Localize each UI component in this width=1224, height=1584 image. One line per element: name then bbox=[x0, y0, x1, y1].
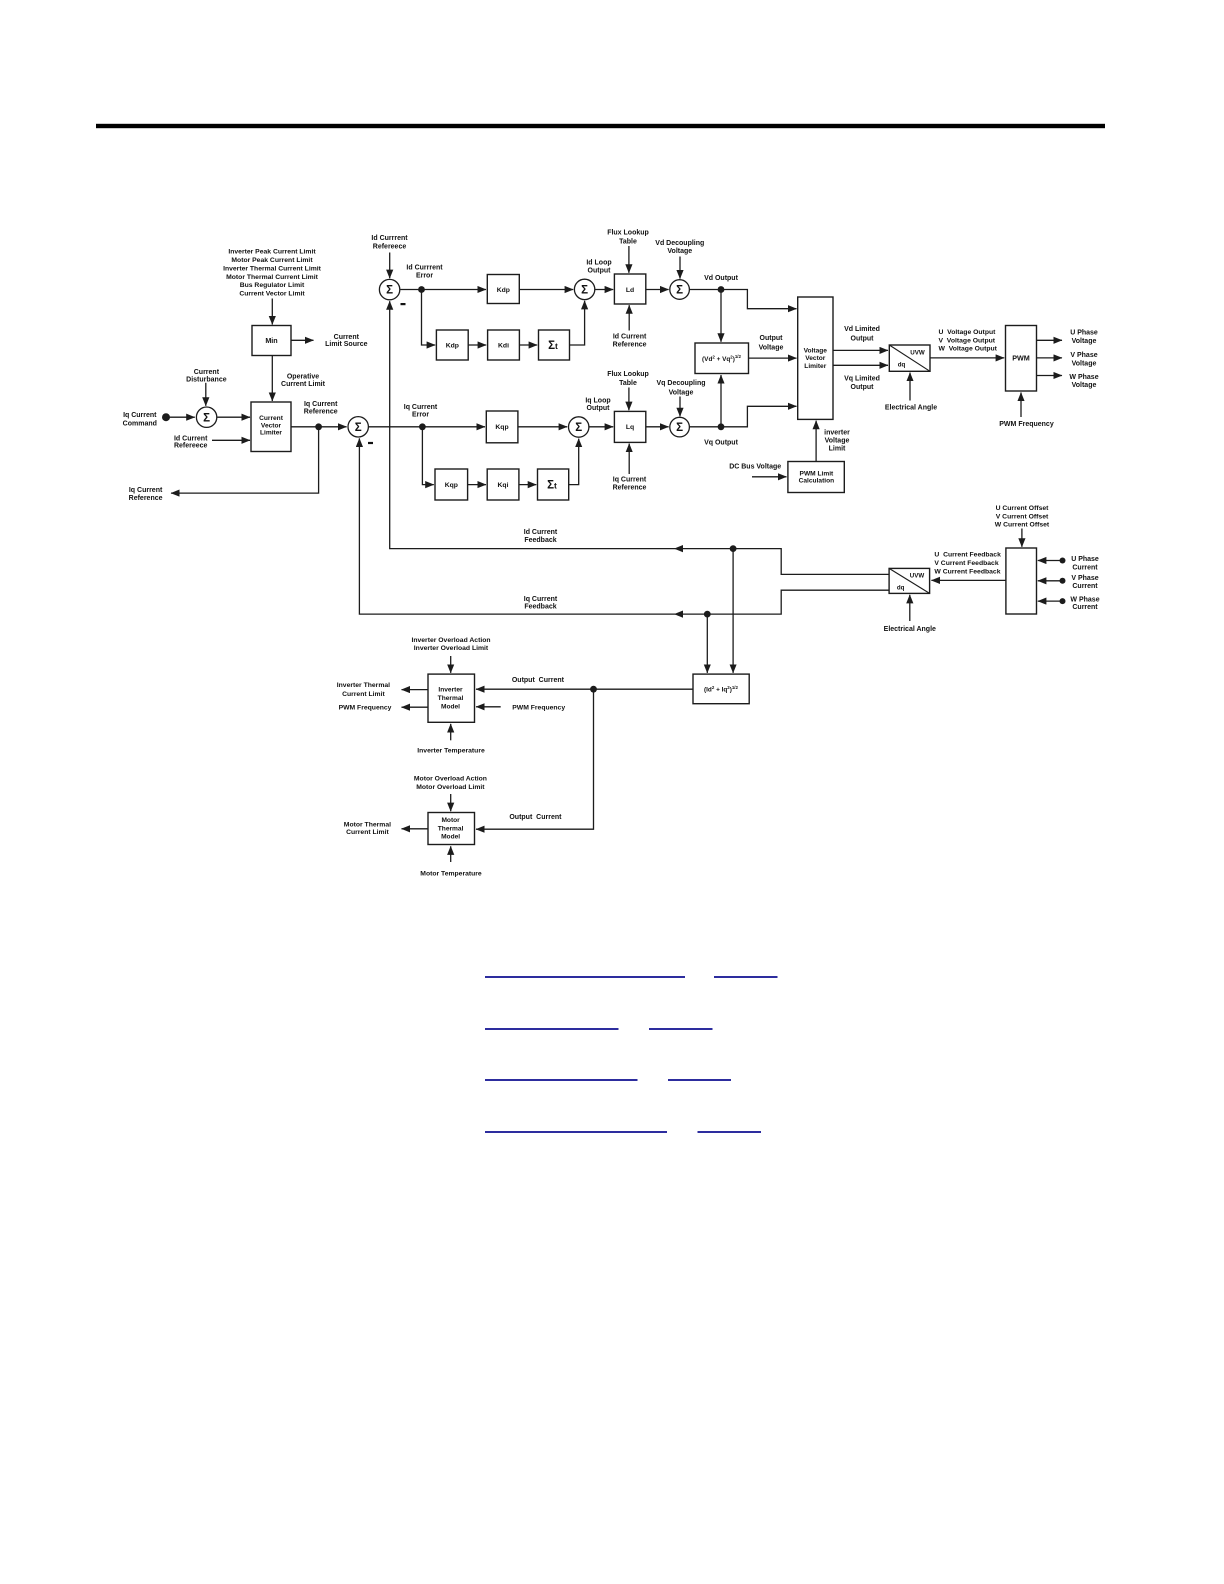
svg-text:U Phase: U Phase bbox=[1070, 329, 1098, 336]
svg-text:Feedback: Feedback bbox=[524, 604, 556, 611]
wire Iq feedback down to current magnitude block bbox=[706, 614, 708, 673]
svg-text:Reference: Reference bbox=[613, 484, 647, 491]
wire Sigma-t up to summer S3 bbox=[570, 301, 585, 345]
wire Vq junction up to magnitude block bbox=[720, 375, 722, 427]
svg-text:Σ: Σ bbox=[203, 412, 210, 424]
svg-text:Thermal: Thermal bbox=[438, 695, 464, 702]
wire Current Disturbance to summer S1 bbox=[205, 383, 207, 406]
block Current Vector Limiter bbox=[251, 402, 291, 452]
svg-text:Kdp: Kdp bbox=[497, 287, 510, 294]
svg-text:Iq Current: Iq Current bbox=[129, 487, 163, 494]
arrow Iq feedback direction bbox=[674, 611, 683, 618]
block UVW to dq feedback transform bbox=[889, 568, 930, 593]
svg-text:U Current Offset: U Current Offset bbox=[996, 505, 1050, 512]
node junction Id feedback bbox=[730, 545, 737, 552]
svg-text:Vq Output: Vq Output bbox=[704, 440, 738, 447]
wire Iq reference up into Lq bbox=[628, 444, 630, 474]
svg-text:Min: Min bbox=[265, 336, 277, 345]
svg-text:Voltage: Voltage bbox=[1072, 338, 1097, 345]
wire Vd decoupling down to S4 bbox=[679, 257, 681, 279]
node junction Vd output bbox=[718, 286, 725, 293]
svg-text:UVW: UVW bbox=[910, 573, 925, 580]
node junction Vq output bbox=[718, 423, 725, 430]
svg-text:Voltage: Voltage bbox=[667, 248, 692, 255]
svg-text:PWM Frequency: PWM Frequency bbox=[339, 705, 392, 712]
wire Id reference down to summer Sd bbox=[389, 253, 391, 279]
wire Id reference up into Ld bbox=[628, 305, 630, 330]
svg-text:Lq: Lq bbox=[626, 424, 634, 431]
block Kqp (integral path gain) bbox=[435, 469, 468, 500]
svg-text:Output: Output bbox=[851, 384, 875, 391]
svg-text:Vd Decoupling: Vd Decoupling bbox=[655, 240, 704, 247]
wire PWM frequency output (left) bbox=[402, 706, 429, 708]
svg-text:Reference: Reference bbox=[613, 342, 647, 349]
wire Kqp to Kqi bbox=[468, 484, 486, 486]
hyperlink underline bbox=[485, 976, 685, 978]
wire electrical angle up to transform bbox=[909, 373, 911, 401]
summer S3 (Id loop output) bbox=[574, 279, 594, 299]
block Sigma-t (Id integrator) bbox=[539, 330, 570, 360]
svg-text:PWM Limit: PWM Limit bbox=[800, 471, 835, 478]
wire Vq limited to dq-UVW transform bbox=[833, 364, 888, 366]
svg-text:Inverter Overload Action: Inverter Overload Action bbox=[411, 637, 490, 644]
wire Sigma-t up to summer S5 bbox=[569, 439, 579, 485]
svg-text:Error: Error bbox=[416, 273, 433, 280]
svg-text:Limiter: Limiter bbox=[804, 363, 826, 370]
block Kdp (proportional) bbox=[487, 275, 519, 304]
svg-text:Current: Current bbox=[1072, 583, 1098, 590]
wire Kqi to sum-t bbox=[519, 484, 536, 486]
wire Vd limited to dq-UVW transform bbox=[833, 349, 888, 351]
svg-text:Vd Limited: Vd Limited bbox=[844, 326, 880, 333]
node junction on Id error wire bbox=[418, 286, 425, 293]
svg-text:Σ: Σ bbox=[355, 422, 362, 434]
svg-text:Limit: Limit bbox=[829, 446, 846, 453]
wire PWM frequency into inverter thermal model bbox=[476, 706, 501, 708]
svg-text:Current Limit: Current Limit bbox=[281, 381, 326, 388]
wire flux table to Ld bbox=[628, 246, 630, 273]
wire branch down to integrator path bbox=[422, 290, 436, 346]
svg-text:V Voltage Output: V Voltage Output bbox=[939, 338, 996, 345]
svg-text:Iq Current: Iq Current bbox=[304, 401, 338, 408]
svg-text:Voltage: Voltage bbox=[1072, 382, 1097, 389]
node junction Iq feedback bbox=[704, 611, 711, 618]
wire motor temperature up to model bbox=[450, 846, 452, 862]
svg-text:Id Current: Id Current bbox=[524, 529, 558, 536]
svg-text:W Phase: W Phase bbox=[1070, 597, 1099, 604]
svg-text:Refereece: Refereece bbox=[174, 443, 208, 450]
node V phase current terminal bbox=[1060, 578, 1066, 584]
minus sign at summer S2 bbox=[368, 442, 373, 444]
wire Min to Current Vector Limiter bbox=[271, 356, 273, 402]
svg-text:Id Current: Id Current bbox=[613, 334, 647, 341]
svg-text:Vector: Vector bbox=[261, 422, 282, 429]
svg-text:Inverter Temperature: Inverter Temperature bbox=[417, 747, 485, 754]
wire Kdp to summer S3 bbox=[519, 289, 573, 291]
svg-text:Electrical Angle: Electrical Angle bbox=[884, 626, 936, 633]
arrow Id feedback direction bbox=[674, 545, 683, 552]
svg-text:Current: Current bbox=[194, 369, 220, 376]
svg-text:Id Currrent: Id Currrent bbox=[406, 265, 443, 272]
hyperlink underline bbox=[485, 1028, 619, 1030]
svg-text:Motor Overload Action: Motor Overload Action bbox=[414, 775, 487, 782]
svg-text:PWM Frequency: PWM Frequency bbox=[999, 421, 1054, 428]
hyperlink underline bbox=[485, 1079, 638, 1081]
svg-text:Error: Error bbox=[412, 412, 429, 419]
svg-text:Inverter Thermal Current Limit: Inverter Thermal Current Limit bbox=[223, 266, 322, 273]
wire Vq decoupling down to S6 bbox=[679, 397, 681, 417]
svg-text:Vd Output: Vd Output bbox=[704, 275, 738, 282]
block voltage magnitude (Vd2+Vq2)^1/2 bbox=[695, 343, 749, 374]
block Motor Thermal Model bbox=[428, 813, 475, 845]
node junction on Iq error wire bbox=[419, 423, 426, 430]
svg-text:inverter: inverter bbox=[824, 430, 850, 437]
svg-text:Reference: Reference bbox=[129, 495, 163, 502]
svg-text:Inverter: Inverter bbox=[438, 687, 463, 694]
svg-text:Σt: Σt bbox=[548, 340, 558, 352]
svg-text:Σt: Σt bbox=[547, 480, 557, 492]
wire Kdp to Kdi bbox=[468, 344, 486, 346]
svg-text:Voltage: Voltage bbox=[759, 345, 784, 352]
svg-text:Iq Current: Iq Current bbox=[524, 596, 558, 603]
svg-text:Σ: Σ bbox=[575, 422, 582, 434]
block PWM bbox=[1006, 326, 1037, 392]
wire junction down and left to Iq Current Reference output bbox=[171, 427, 319, 493]
svg-text:Limit Source: Limit Source bbox=[325, 341, 368, 348]
svg-text:Motor Peak Current Limit: Motor Peak Current Limit bbox=[231, 257, 313, 264]
svg-text:Vq Decoupling: Vq Decoupling bbox=[657, 380, 706, 387]
svg-text:V Current Offset: V Current Offset bbox=[996, 513, 1049, 520]
block Voltage Vector Limiter bbox=[798, 297, 833, 419]
wire inverter thermal current limit output bbox=[402, 689, 429, 691]
svg-text:Kqp: Kqp bbox=[495, 424, 508, 431]
svg-text:Thermal: Thermal bbox=[438, 826, 464, 833]
block Kdi bbox=[488, 330, 520, 360]
svg-text:PWM: PWM bbox=[1012, 354, 1030, 363]
svg-text:W Phase: W Phase bbox=[1069, 374, 1098, 381]
svg-text:Flux Lookup: Flux Lookup bbox=[607, 371, 649, 378]
svg-text:Ld: Ld bbox=[626, 287, 634, 294]
summer S5 (Iq loop output) bbox=[569, 417, 589, 437]
svg-text:Output: Output bbox=[588, 268, 612, 275]
wire PWM V phase output bbox=[1037, 357, 1063, 359]
hyperlink underline bbox=[714, 976, 778, 978]
svg-text:Calculation: Calculation bbox=[799, 478, 835, 485]
hyperlink underline bbox=[485, 1131, 667, 1133]
svg-text:U Phase: U Phase bbox=[1071, 556, 1099, 563]
svg-text:Reference: Reference bbox=[304, 409, 338, 416]
svg-text:Voltage: Voltage bbox=[804, 347, 828, 354]
wire PWM limit calculation up to voltage vector limiter bbox=[815, 421, 817, 462]
block Lq bbox=[614, 411, 645, 442]
svg-text:Iq Current: Iq Current bbox=[404, 404, 438, 411]
minus sign at summer Sd bbox=[401, 303, 406, 305]
summer Sd (Id error) bbox=[379, 279, 399, 299]
wire Iq current feedback to summer S2 bbox=[359, 438, 889, 614]
svg-text:Inverter Thermal: Inverter Thermal bbox=[337, 682, 390, 689]
wire Min to Current Limit Source bbox=[291, 339, 314, 341]
svg-text:Operative: Operative bbox=[287, 374, 319, 381]
svg-text:Id Loop: Id Loop bbox=[586, 260, 611, 267]
hyperlink underline bbox=[668, 1079, 731, 1081]
svg-text:DC Bus Voltage: DC Bus Voltage bbox=[729, 464, 781, 471]
wire overload labels down to motor thermal model bbox=[450, 794, 452, 811]
svg-text:Iq Current: Iq Current bbox=[123, 412, 157, 419]
svg-text:Σ: Σ bbox=[386, 285, 393, 297]
svg-text:U Current Feedback: U Current Feedback bbox=[934, 552, 1001, 559]
block Inverter Thermal Model bbox=[428, 674, 475, 722]
svg-text:Output Current: Output Current bbox=[509, 814, 562, 821]
svg-text:U Voltage Output: U Voltage Output bbox=[939, 329, 997, 336]
svg-text:Limiter: Limiter bbox=[260, 430, 282, 437]
wire W phase current into offset block bbox=[1038, 600, 1063, 602]
wire current offset down into offset block bbox=[1021, 529, 1023, 547]
block Kqp (proportional) bbox=[486, 411, 518, 443]
wire transform to PWM bbox=[930, 357, 1004, 359]
svg-text:Inverter Peak Current Limit: Inverter Peak Current Limit bbox=[228, 249, 316, 256]
svg-text:Id Current: Id Current bbox=[174, 435, 208, 442]
top horizontal rule bbox=[96, 124, 1105, 128]
wire S4 to voltage vector limiter (Vd path) bbox=[689, 290, 796, 309]
block PWM Limit Calculation bbox=[788, 462, 844, 493]
svg-text:Output Current: Output Current bbox=[512, 677, 565, 684]
svg-text:Id Currrent: Id Currrent bbox=[371, 235, 408, 242]
svg-text:Vq Limited: Vq Limited bbox=[844, 376, 880, 383]
wire Current Vector Limiter to summer S2 bbox=[291, 426, 347, 428]
wire Lq to summer S6 bbox=[646, 426, 669, 428]
svg-text:Bus Regulator Limit: Bus Regulator Limit bbox=[240, 282, 305, 289]
wire S3 to Ld bbox=[595, 289, 613, 291]
wire PWM U phase output bbox=[1037, 339, 1063, 341]
svg-text:W Current Offset: W Current Offset bbox=[995, 522, 1050, 529]
wire flux table to Lq bbox=[628, 388, 630, 411]
block Sigma-t (Iq integrator) bbox=[538, 469, 569, 500]
svg-text:Refereece: Refereece bbox=[373, 243, 407, 250]
svg-text:Vector: Vector bbox=[805, 355, 826, 362]
svg-text:Motor Thermal: Motor Thermal bbox=[344, 821, 391, 828]
svg-text:Kqp: Kqp bbox=[445, 482, 458, 489]
svg-text:Kdi: Kdi bbox=[498, 342, 509, 349]
wire motor thermal current limit output bbox=[402, 828, 429, 830]
node W phase current terminal bbox=[1060, 598, 1066, 604]
wire Kdi to sum-t bbox=[519, 344, 537, 346]
svg-text:W Voltage Output: W Voltage Output bbox=[939, 346, 998, 353]
svg-text:Iq Loop: Iq Loop bbox=[585, 397, 610, 404]
summer S1 (command + disturbance) bbox=[196, 407, 216, 427]
node Iq Current Command terminal bbox=[162, 413, 170, 421]
svg-text:Command: Command bbox=[123, 420, 157, 427]
svg-text:Electrical Angle: Electrical Angle bbox=[885, 405, 937, 412]
svg-text:Model: Model bbox=[441, 704, 460, 711]
block Kqi bbox=[487, 469, 519, 500]
wire branch down to Iq integrator path bbox=[422, 427, 433, 485]
block Kdp (integral path gain) bbox=[436, 330, 468, 360]
svg-text:Iq Current: Iq Current bbox=[613, 476, 647, 483]
svg-text:Σ: Σ bbox=[676, 422, 683, 434]
wire offset block to UVW-dq transform bbox=[931, 579, 1006, 581]
svg-text:Output: Output bbox=[587, 405, 611, 412]
svg-text:Motor Overload Limit: Motor Overload Limit bbox=[416, 784, 485, 791]
svg-text:Motor Temperature: Motor Temperature bbox=[420, 870, 482, 877]
svg-text:Voltage: Voltage bbox=[825, 438, 850, 445]
wire Kqp to summer S5 bbox=[518, 426, 567, 428]
svg-text:Current Limit: Current Limit bbox=[342, 691, 385, 698]
svg-text:Feedback: Feedback bbox=[524, 537, 556, 544]
wire S1 to Current Vector Limiter bbox=[217, 416, 250, 418]
svg-text:V Current Feedback: V Current Feedback bbox=[934, 560, 998, 567]
wire S5 to Lq bbox=[589, 426, 613, 428]
svg-text:Table: Table bbox=[619, 238, 637, 245]
svg-text:V Phase: V Phase bbox=[1070, 352, 1097, 359]
block current magnitude (Id2+Iq2)^1/2 bbox=[693, 674, 749, 704]
wire Vd junction down to magnitude block bbox=[720, 290, 722, 342]
summer S4 (Vd) bbox=[670, 280, 690, 300]
wire magnitude to voltage vector limiter bbox=[749, 357, 797, 359]
wire V phase current into offset block bbox=[1038, 580, 1063, 582]
node U phase current terminal bbox=[1060, 558, 1066, 564]
wire PWM W phase output bbox=[1037, 375, 1063, 377]
hyperlink underline bbox=[649, 1028, 713, 1030]
svg-text:Disturbance: Disturbance bbox=[186, 377, 227, 384]
wire DC bus voltage to PWM limit calculation bbox=[752, 476, 787, 478]
svg-text:Current: Current bbox=[259, 415, 284, 422]
node junction output current bbox=[590, 686, 597, 693]
svg-text:dq: dq bbox=[898, 362, 906, 369]
svg-text:Motor: Motor bbox=[441, 817, 460, 824]
wire output current down to motor thermal model bbox=[476, 689, 594, 829]
svg-text:Flux Lookup: Flux Lookup bbox=[607, 229, 649, 236]
block current offset bbox=[1006, 548, 1037, 614]
wire S2 to Kqp bbox=[369, 426, 485, 428]
svg-text:Current Limit: Current Limit bbox=[346, 829, 389, 836]
svg-text:Σ: Σ bbox=[676, 285, 683, 297]
node junction on Iq reference wire bbox=[315, 423, 322, 430]
svg-text:Table: Table bbox=[619, 380, 637, 387]
hyperlink underline bbox=[698, 1131, 762, 1133]
wire Id feedback down to current magnitude block bbox=[732, 549, 734, 673]
wire S6 to voltage vector limiter (Vq path) bbox=[689, 406, 796, 427]
wire overload labels down to inverter thermal model bbox=[450, 656, 452, 673]
wire command to summer S1 bbox=[166, 416, 195, 418]
wire current magnitude to inverter thermal model bbox=[476, 688, 693, 690]
svg-text:Kqi: Kqi bbox=[498, 482, 509, 489]
block dq to UVW transform bbox=[889, 345, 930, 371]
summer S2 (Iq error) bbox=[348, 417, 368, 437]
svg-text:Current: Current bbox=[1072, 604, 1098, 611]
wire U phase current into offset block bbox=[1038, 560, 1063, 562]
svg-text:Motor Thermal Current Limit: Motor Thermal Current Limit bbox=[226, 274, 318, 281]
svg-text:Voltage: Voltage bbox=[1072, 360, 1097, 367]
svg-text:Inverter Overload Limit: Inverter Overload Limit bbox=[414, 645, 489, 652]
wire Ld to summer S4 bbox=[646, 289, 669, 291]
svg-text:Output: Output bbox=[851, 335, 875, 342]
wire electrical angle up to feedback transform bbox=[909, 595, 911, 621]
svg-text:Model: Model bbox=[441, 834, 460, 841]
svg-text:Σ: Σ bbox=[581, 285, 588, 297]
wire list to Min bbox=[271, 299, 273, 325]
block Ld bbox=[614, 274, 645, 304]
wire Id current feedback to summer Sd bbox=[390, 301, 889, 574]
block Min bbox=[252, 326, 291, 356]
wire Id reference to Current Vector Limiter bbox=[212, 439, 250, 441]
svg-text:V Phase: V Phase bbox=[1071, 575, 1098, 582]
wire PWM frequency up to PWM bbox=[1020, 393, 1022, 418]
svg-text:Output: Output bbox=[760, 335, 784, 342]
svg-text:Current: Current bbox=[1072, 564, 1098, 571]
svg-text:Current Vector Limit: Current Vector Limit bbox=[239, 291, 305, 298]
wire inverter temperature up to model bbox=[450, 724, 452, 740]
summer S6 (Vq) bbox=[670, 417, 690, 437]
svg-text:dq: dq bbox=[897, 585, 905, 592]
svg-text:W Current Feedback: W Current Feedback bbox=[934, 569, 1000, 576]
svg-text:PWM Frequency: PWM Frequency bbox=[512, 704, 565, 711]
svg-text:Kdp: Kdp bbox=[446, 342, 459, 349]
wire Sd to Kdp bbox=[400, 289, 486, 291]
svg-text:Voltage: Voltage bbox=[669, 389, 694, 396]
svg-text:UVW: UVW bbox=[910, 350, 925, 357]
